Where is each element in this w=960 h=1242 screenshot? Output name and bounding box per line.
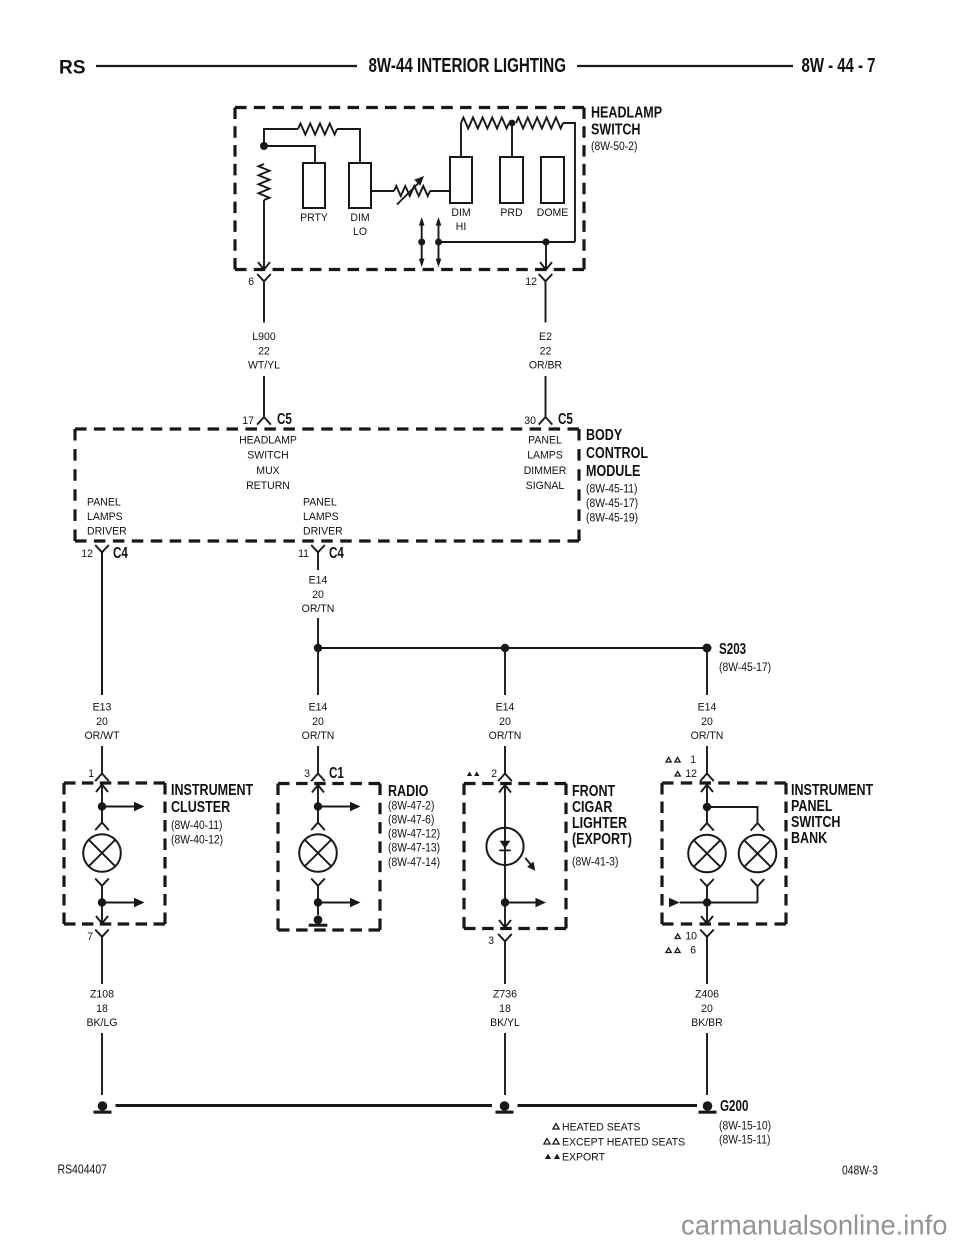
svg-text:(8W-45-19): (8W-45-19) <box>586 513 638 525</box>
wire <box>706 1033 708 1095</box>
wire <box>511 123 513 157</box>
wire <box>317 746 319 765</box>
svg-text:PRTY: PRTY <box>300 212 328 224</box>
variable resistor (dimmer rheostat) <box>371 190 394 192</box>
svg-text:12: 12 <box>685 768 697 780</box>
legend heated seats <box>553 1124 559 1129</box>
svg-text:PANEL: PANEL <box>87 497 121 509</box>
internal connector <box>95 879 109 903</box>
svg-text:C5: C5 <box>558 411 573 428</box>
pin 10/6 connector <box>675 934 680 939</box>
switch contact DOME <box>541 157 564 203</box>
switch bank title <box>791 782 874 847</box>
footer sheet number left <box>58 1163 108 1177</box>
wire E14 label <box>302 702 335 743</box>
svg-text:E2: E2 <box>539 331 552 343</box>
lamp (radio illumination) <box>299 834 337 872</box>
node C junction <box>542 238 549 245</box>
svg-text:20: 20 <box>701 716 713 728</box>
svg-text:18: 18 <box>499 1003 511 1015</box>
svg-text:(8W-40-11): (8W-40-11) <box>171 820 223 832</box>
instrument panel switch bank box <box>662 783 786 924</box>
wire branch <box>707 807 758 816</box>
svg-text:LAMPS: LAMPS <box>527 450 563 462</box>
radio title <box>388 783 440 869</box>
LED lamp <box>486 828 523 865</box>
svg-text:LO: LO <box>353 226 367 238</box>
svg-text:BANK: BANK <box>791 830 827 847</box>
svg-text:12: 12 <box>81 548 93 560</box>
BCM pin name: panel lamps driver (middle) <box>303 497 343 538</box>
wire <box>545 376 547 408</box>
cigar lighter title <box>572 783 632 868</box>
footer sheet number right <box>842 1164 878 1178</box>
wire to pin 6 with arrow <box>263 200 265 269</box>
header rule left <box>96 65 357 67</box>
svg-text:RS404407: RS404407 <box>58 1163 108 1177</box>
svg-text:(8W-45-11): (8W-45-11) <box>586 483 638 495</box>
svg-text:HEADLAMP: HEADLAMP <box>591 105 662 122</box>
svg-text:3: 3 <box>304 768 310 780</box>
svg-text:CLUSTER: CLUSTER <box>171 799 230 816</box>
svg-text:(8W-47-13): (8W-47-13) <box>388 843 440 855</box>
wire Z108 label <box>87 989 118 1030</box>
pin 3 C1 connector (radio) <box>311 765 325 781</box>
lamp (left) <box>688 835 726 873</box>
svg-text:PANEL: PANEL <box>528 435 562 447</box>
wire entry arrow <box>504 785 506 903</box>
svg-text:20: 20 <box>96 716 108 728</box>
pin 17 C5 connector <box>257 408 271 425</box>
svg-text:(8W-47-14): (8W-47-14) <box>388 857 440 869</box>
internal connector <box>751 879 765 903</box>
svg-text:E14: E14 <box>698 702 717 714</box>
wire <box>504 652 506 695</box>
wire <box>101 552 103 695</box>
svg-text:(8W-15-10): (8W-15-10) <box>719 1121 771 1133</box>
svg-text:HI: HI <box>456 221 467 233</box>
svg-text:E14: E14 <box>309 575 328 587</box>
svg-text:DIM: DIM <box>451 207 470 219</box>
svg-text:OR/TN: OR/TN <box>302 603 335 615</box>
wire entry arrow <box>317 785 319 807</box>
wire <box>101 746 103 765</box>
wire E14 label (upper) <box>302 575 335 616</box>
svg-text:Z108: Z108 <box>90 989 114 1001</box>
svg-text:SWITCH: SWITCH <box>591 121 641 138</box>
svg-text:Z406: Z406 <box>695 989 719 1001</box>
header title <box>369 55 567 77</box>
legend export <box>545 1154 551 1159</box>
internal connector <box>700 807 714 831</box>
internal arrow <box>102 902 134 904</box>
svg-text:S203: S203 <box>719 641 746 658</box>
wire L900 label <box>248 331 280 372</box>
header rule right <box>577 65 793 67</box>
svg-text:10: 10 <box>685 931 697 943</box>
svg-text:(EXPORT): (EXPORT) <box>572 831 632 848</box>
headlamp switch title <box>591 105 662 154</box>
internal arrow <box>102 806 134 808</box>
wire <box>264 129 298 146</box>
wire E2 label <box>529 331 562 372</box>
wire entry arrow <box>101 784 103 807</box>
svg-text:RADIO: RADIO <box>388 783 428 800</box>
wire <box>504 1033 506 1095</box>
switch contact PRD <box>500 157 523 203</box>
svg-text:G200: G200 <box>720 1098 748 1115</box>
svg-text:L900: L900 <box>252 331 275 343</box>
pin 1 connector (cluster) <box>95 765 109 781</box>
junction <box>314 802 322 810</box>
resistor (prty feed) vertical <box>259 164 270 200</box>
svg-text:(8W-40-12): (8W-40-12) <box>171 835 223 847</box>
svg-text:C4: C4 <box>329 545 344 562</box>
junction <box>98 802 106 810</box>
instrument cluster box <box>64 783 165 924</box>
svg-text:8W - 44 - 7: 8W - 44 - 7 <box>802 55 876 77</box>
wire exit arrow <box>504 903 506 928</box>
internal connector <box>700 879 714 903</box>
svg-text:EXPORT: EXPORT <box>562 1152 605 1164</box>
svg-text:6: 6 <box>248 276 254 288</box>
svg-text:E14: E14 <box>496 702 515 714</box>
svg-text:C4: C4 <box>113 545 128 562</box>
ground stud (cigar) <box>500 1101 510 1111</box>
svg-text:(8W-41-3): (8W-41-3) <box>572 857 619 869</box>
svg-text:(8W-15-11): (8W-15-11) <box>719 1135 771 1147</box>
wire <box>706 652 708 695</box>
pin 3 connector <box>488 935 494 947</box>
node B junction <box>509 120 516 127</box>
svg-text:20: 20 <box>312 716 324 728</box>
svg-text:8W-44 INTERIOR LIGHTING: 8W-44 INTERIOR LIGHTING <box>369 55 567 77</box>
svg-text:CONTROL: CONTROL <box>586 445 648 462</box>
wire <box>317 618 319 648</box>
ground rail wire <box>518 1104 698 1107</box>
wire <box>264 146 315 163</box>
node A junction <box>260 142 268 150</box>
BCM title <box>586 427 648 525</box>
svg-text:BODY: BODY <box>586 427 622 444</box>
off-page arrow (up/down) <box>438 223 440 261</box>
switch contact DIM LO <box>349 163 371 208</box>
junction <box>501 644 509 652</box>
svg-text:EXCEPT HEATED SEATS: EXCEPT HEATED SEATS <box>562 1137 686 1149</box>
pin 12 connector <box>525 276 537 288</box>
wire exit arrow <box>706 903 708 924</box>
BCM pin name: panel lamps driver (left) <box>87 497 127 538</box>
junction <box>703 898 711 906</box>
svg-text:SWITCH: SWITCH <box>791 814 841 831</box>
svg-text:LAMPS: LAMPS <box>303 511 339 523</box>
svg-text:MODULE: MODULE <box>586 463 640 480</box>
svg-text:MUX: MUX <box>256 465 280 477</box>
svg-text:22: 22 <box>258 345 270 357</box>
ground rail wire <box>116 1104 493 1107</box>
legend except heated seats <box>544 1139 550 1144</box>
svg-text:DRIVER: DRIVER <box>303 525 343 537</box>
watermark <box>681 1210 947 1241</box>
internal ground stud <box>317 903 319 916</box>
junction <box>703 803 711 811</box>
instrument cluster title <box>171 782 254 847</box>
svg-text:(8W-47-12): (8W-47-12) <box>388 829 440 841</box>
svg-text:OR/TN: OR/TN <box>691 730 724 742</box>
svg-text:INSTRUMENT: INSTRUMENT <box>791 782 874 799</box>
svg-text:DIMMER: DIMMER <box>524 465 567 477</box>
svg-text:11: 11 <box>298 548 309 560</box>
internal arrow <box>318 902 350 904</box>
switch contact PRTY <box>303 163 325 208</box>
svg-text:RS: RS <box>59 57 86 79</box>
svg-text:CIGAR: CIGAR <box>572 799 612 816</box>
svg-text:BK/YL: BK/YL <box>490 1017 520 1029</box>
resistor (dome dim left) <box>461 118 509 129</box>
svg-text:3: 3 <box>488 935 494 947</box>
svg-text:LAMPS: LAMPS <box>87 511 123 523</box>
radio box <box>278 784 380 931</box>
svg-text:C1: C1 <box>329 765 344 782</box>
svg-text:BK/LG: BK/LG <box>87 1017 118 1029</box>
wire <box>317 652 319 695</box>
wire Z736 label <box>490 989 520 1030</box>
header page number <box>802 55 876 77</box>
svg-text:20: 20 <box>312 589 324 601</box>
svg-text:(8W-47-6): (8W-47-6) <box>388 815 435 827</box>
wire <box>263 376 265 408</box>
headlamp switch box <box>235 108 584 270</box>
svg-text:SWITCH: SWITCH <box>247 450 288 462</box>
svg-text:6: 6 <box>690 945 696 957</box>
svg-text:30: 30 <box>524 415 536 427</box>
junction <box>98 898 106 906</box>
svg-text:PRD: PRD <box>500 207 522 219</box>
header label RS <box>59 57 86 79</box>
svg-text:E13: E13 <box>93 702 112 714</box>
svg-text:carmanualsonline.info: carmanualsonline.info <box>681 1210 947 1241</box>
wire entry arrow <box>706 784 708 807</box>
svg-text:OR/WT: OR/WT <box>85 730 120 742</box>
body control module box <box>75 429 579 541</box>
wire <box>706 746 708 765</box>
wire <box>504 746 506 765</box>
svg-text:DOME: DOME <box>537 207 569 219</box>
svg-text:PANEL: PANEL <box>791 798 833 815</box>
wire bus <box>439 241 576 243</box>
svg-text:(8W-50-2): (8W-50-2) <box>591 141 638 153</box>
wire exit arrow <box>101 903 103 924</box>
wire <box>460 123 462 157</box>
wire <box>563 123 575 242</box>
svg-text:(8W-45-17): (8W-45-17) <box>719 662 771 674</box>
pin 1/12 connector (switch bank) <box>700 765 714 781</box>
svg-text:SIGNAL: SIGNAL <box>526 480 565 492</box>
ground stud (cluster) <box>98 1101 108 1111</box>
svg-text:PANEL: PANEL <box>303 497 337 509</box>
svg-text:18: 18 <box>96 1003 108 1015</box>
internal connector <box>311 879 325 903</box>
off-page arrow (up/down) <box>421 223 423 261</box>
svg-text:OR/BR: OR/BR <box>529 360 562 372</box>
splice bus wire <box>318 647 707 649</box>
splice S203 <box>703 644 712 653</box>
svg-text:DIM: DIM <box>350 212 369 224</box>
svg-text:FRONT: FRONT <box>572 783 616 800</box>
svg-text:WT/YL: WT/YL <box>248 360 280 372</box>
svg-text:12: 12 <box>525 276 537 288</box>
svg-text:22: 22 <box>540 345 552 357</box>
svg-text:Z736: Z736 <box>493 989 517 1001</box>
junction <box>314 898 322 906</box>
wire E14 label <box>691 702 724 743</box>
resistor (panel dimmer ladder) <box>298 124 337 135</box>
rheostat arrow <box>397 184 418 205</box>
BCM pin name: headlamp switch mux return <box>239 435 297 493</box>
svg-text:1: 1 <box>88 768 94 780</box>
svg-text:17: 17 <box>242 415 254 427</box>
svg-text:20: 20 <box>701 1003 713 1015</box>
svg-text:C5: C5 <box>277 411 292 428</box>
svg-text:HEADLAMP: HEADLAMP <box>239 435 297 447</box>
svg-text:2: 2 <box>491 768 497 780</box>
svg-text:INSTRUMENT: INSTRUMENT <box>171 782 254 799</box>
wire <box>337 129 360 163</box>
svg-text:OR/TN: OR/TN <box>489 730 522 742</box>
internal connector <box>751 816 765 831</box>
svg-text:E14: E14 <box>309 702 328 714</box>
svg-text:20: 20 <box>499 716 511 728</box>
junction <box>314 644 322 652</box>
BCM pin name: panel lamps dimmer signal <box>524 435 567 493</box>
lamp (illumination) <box>83 834 121 872</box>
svg-text:048W-3: 048W-3 <box>842 1164 878 1178</box>
resistor (dome dim right) <box>516 118 563 129</box>
svg-text:BK/BR: BK/BR <box>691 1017 723 1029</box>
svg-text:(8W-45-17): (8W-45-17) <box>586 498 638 510</box>
junction <box>501 898 509 906</box>
svg-text:LIGHTER: LIGHTER <box>572 815 627 832</box>
wire Z406 label <box>691 989 723 1030</box>
svg-text:1: 1 <box>690 754 696 766</box>
wire to pin 12 with arrow <box>545 242 547 269</box>
front cigar lighter box <box>464 784 566 929</box>
internal arrow from border <box>669 898 680 907</box>
wire E14 label <box>489 702 522 743</box>
LED emission arrow <box>525 858 531 866</box>
internal connector <box>311 807 325 831</box>
pin 12 C4 connector <box>81 545 128 562</box>
svg-text:HEATED SEATS: HEATED SEATS <box>562 1122 641 1134</box>
internal arrow <box>318 806 350 808</box>
wire E13 label <box>85 702 120 743</box>
svg-text:7: 7 <box>87 931 93 943</box>
svg-text:(8W-47-2): (8W-47-2) <box>388 801 435 813</box>
svg-text:OR/TN: OR/TN <box>302 730 335 742</box>
internal arrow <box>505 902 536 904</box>
wire <box>101 1033 103 1095</box>
svg-text:DRIVER: DRIVER <box>87 525 127 537</box>
svg-text:RETURN: RETURN <box>246 480 290 492</box>
ground G200 <box>703 1101 713 1111</box>
lamp (right) <box>739 835 777 873</box>
pin 7 connector <box>87 931 93 943</box>
internal connector <box>95 807 109 831</box>
pin 6 connector <box>248 276 254 288</box>
pin 11 C4 connector <box>298 545 344 562</box>
pin 2 connector (cigar lighter) <box>498 765 512 781</box>
switch contact DIM HI <box>450 157 472 203</box>
pin 30 C5 connector <box>539 408 553 425</box>
